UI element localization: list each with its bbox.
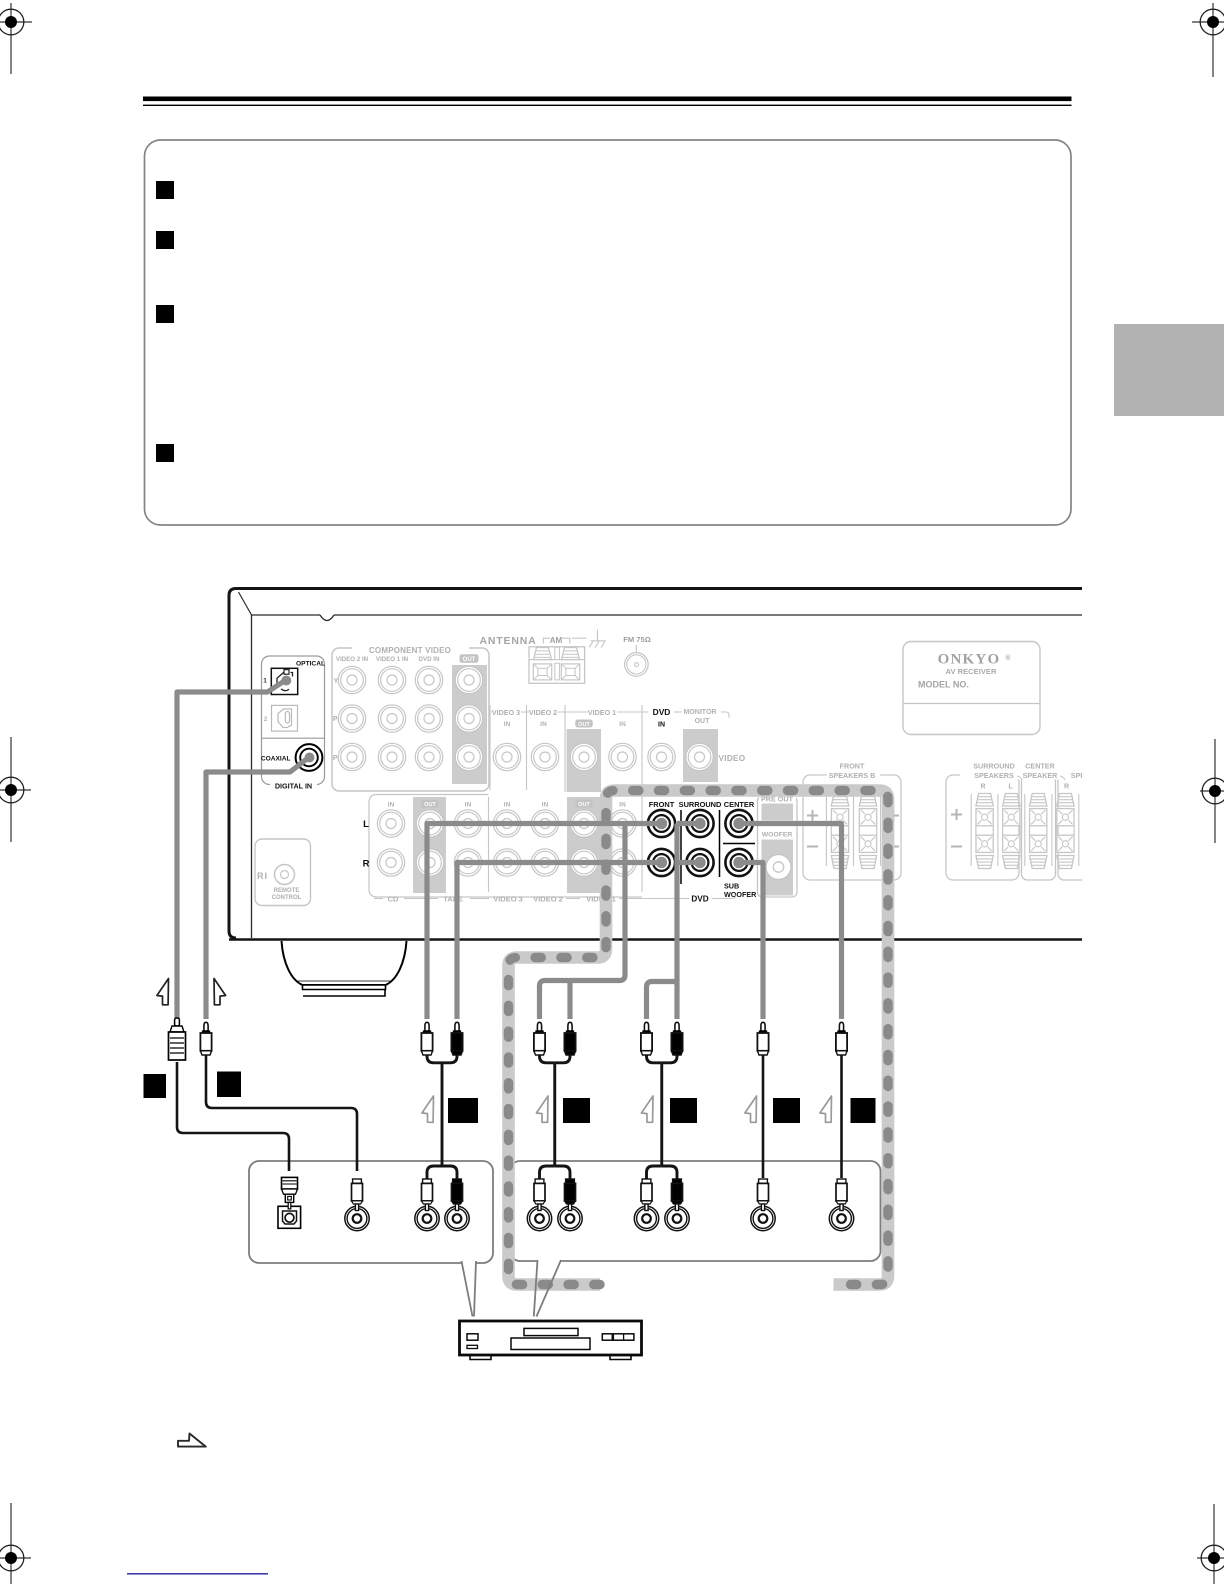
svg-text:REMOTE: REMOTE [274,888,300,894]
dvd outputs box 1 [249,1161,493,1263]
bubble tail 2 [534,1260,561,1317]
svg-text:SURROUND: SURROUND [679,800,722,809]
svg-text:SPEAKER: SPEAKER [1023,771,1059,780]
svg-text:OUT: OUT [578,722,590,728]
arrow center [820,1096,832,1122]
registration mark top-left [0,3,32,74]
arrow front 5.1 [536,1096,548,1122]
registration mark mid-right [1200,739,1224,843]
front R alt cable (5.1) [567,981,572,1020]
pre out woofer jack [766,854,791,879]
center plug upper [839,1022,843,1031]
gray bands tape out / video1 out (audio) [413,797,446,893]
svg-text:IN: IN [658,722,665,729]
svg-text:AM: AM [550,636,563,645]
section separator lines [489,705,643,892]
arrow surround [641,1096,653,1122]
svg-text:1: 1 [263,678,267,685]
note pointer icon [178,1434,206,1447]
svg-text:VIDEO 3: VIDEO 3 [493,895,523,904]
dvd front out R plug [566,1179,575,1183]
surround L plug upper [644,1022,648,1031]
optical plug upper [169,1018,186,1060]
registration mark bottom-right [1197,1504,1224,1584]
surround cable pair [647,824,696,1020]
page edge tab [1114,324,1224,416]
svg-text:MODEL NO.: MODEL NO. [918,680,969,690]
svg-text:DVD: DVD [691,895,708,904]
dashed cable run (dashes) [509,791,889,1285]
header double rule [143,97,1072,107]
dvd jack surround top [686,810,713,837]
svg-text:FRONT: FRONT [840,762,865,771]
label DIGITAL IN [270,780,317,789]
svg-text:VIDEO 2: VIDEO 2 [533,895,563,904]
tag surround [670,1098,697,1123]
component video jack c2r3 [378,743,405,770]
svg-text:FRONT: FRONT [649,800,675,809]
front L plug upper [425,1022,429,1031]
subwoofer plug upper [761,1022,765,1031]
optical jack 1 [271,668,297,694]
note bullet 1 [156,181,174,199]
audio jack cd L [377,810,404,837]
front R cable [457,863,657,1020]
front L cable [427,824,657,1020]
svg-text:RI: RI [257,871,268,881]
dvd surround out R plug [673,1179,682,1183]
tag front [448,1098,478,1123]
arrow coaxial [214,979,226,1005]
dashed cable run (tube) [509,791,889,1285]
dvd analog out L plug [423,1179,432,1183]
svg-text:CONTROL: CONTROL [272,895,302,901]
registration mark bottom-left [0,1503,31,1584]
svg-text:IN: IN [504,802,511,809]
svg-text:TAPE: TAPE [443,895,462,904]
dvd analog out R jack [445,1206,469,1230]
dvd optical out plug [282,1177,298,1209]
svg-text:CENTER: CENTER [724,800,755,809]
onkyo logo box [903,642,1040,735]
audio jack cd R [377,849,404,876]
dvd center out jack [829,1206,853,1230]
audio jack video1 out L [570,810,597,837]
dvd jack surround bottom [686,849,713,876]
speaker B plus/minus [807,810,899,847]
audio jack video3 L [493,810,520,837]
component video jack c4r3 [455,743,482,770]
svg-text:COMPONENT VIDEO: COMPONENT VIDEO [369,646,451,655]
svg-text:IN: IN [388,802,395,809]
dvd front out L jack [527,1206,551,1230]
svg-text:SURROUND: SURROUND [973,762,1015,771]
tag front 5.1 [563,1098,590,1123]
center terminal [1030,794,1047,869]
speakers A terminal box (clipped) [1058,775,1098,880]
svg-text:VIDEO 1 IN: VIDEO 1 IN [376,656,409,663]
svg-text:OUT: OUT [463,657,476,663]
surround terminal R [976,794,993,869]
dvd analog out L jack [415,1206,439,1230]
note bullet 2 [156,231,174,249]
composite jack video 1 in [609,743,636,770]
bubble tail 1 [462,1261,477,1317]
audio section rounded frame [369,795,642,898]
coaxial plug upper [204,1022,208,1031]
svg-text:DVD: DVD [653,707,671,717]
note bullet 4 [156,444,174,462]
speaker B terminal R [831,794,848,869]
pre out box [758,796,798,897]
gray bands video out / monitor out [567,729,602,792]
subwoofer cable [739,863,763,1020]
audio jack video2 L [531,810,558,837]
front R plug upper [455,1022,459,1031]
svg-text:OUT: OUT [424,802,436,808]
svg-text:VIDEO 3: VIDEO 3 [492,708,520,717]
arrow optical [157,979,169,1005]
component video jack c2r2 [378,705,405,732]
svg-text:SPEAKERS B: SPEAKERS B [829,771,876,780]
component video jack c1r1 [338,666,365,693]
RI remote control box [255,839,311,906]
svg-text:VIDEO 2 IN: VIDEO 2 IN [336,656,369,663]
svg-text:IN: IN [619,721,626,728]
dvd surround out R jack [665,1206,689,1230]
tag optical [144,1074,167,1098]
ground symbol [589,630,605,648]
optical cable to receiver [177,681,285,1020]
svg-text:IN: IN [619,802,626,809]
component video jack c3r3 [415,743,442,770]
note box frame [145,140,1072,525]
dvd subwoofer out plug [759,1179,768,1183]
component video jack c3r2 [415,705,442,732]
svg-text:IN: IN [542,802,549,809]
svg-text:CD: CD [388,895,399,904]
composite jack video 1 out [570,743,597,770]
svg-text:WOOFER: WOOFER [724,890,757,899]
coaxial cable to receiver [206,758,308,1019]
svg-text:AV RECEIVER: AV RECEIVER [946,667,997,676]
front L alt cable (5.1) [540,824,626,1020]
FM antenna jack [635,645,637,652]
audio jack video1 in R [609,849,636,876]
component video jack c1r2 [338,705,365,732]
composite jack dvd in [648,743,675,770]
svg-text:DIGITAL IN: DIGITAL IN [275,782,312,791]
svg-text:L: L [363,819,369,830]
composite jack video 3 in [493,743,520,770]
surround pair patch cables [647,1052,678,1180]
audio jack tape in L [454,810,481,837]
component video jack c3r1 [415,666,442,693]
dvd surround out L jack [634,1206,658,1230]
surround terminal L [1003,794,1020,869]
dvd front out L plug [535,1179,544,1183]
optical jack 2 (unused) [272,705,298,731]
coaxial digital jack [296,744,323,771]
label PRE OUT [759,794,796,802]
component video jack c1r3 [338,743,365,770]
receiver foot [282,941,407,996]
svg-text:®: ® [1005,654,1011,662]
composite jack video 2 in [531,743,558,770]
optical patch cable [177,1062,289,1171]
center patch cable [840,1054,843,1178]
svg-text:VIDEO: VIDEO [719,754,746,763]
registration mark mid-left [0,737,31,842]
svg-text:OUT: OUT [695,718,711,725]
surround R plug upper [675,1022,679,1031]
front 5.1 R plug upper [568,1022,572,1031]
dvd jack front bottom [648,849,675,876]
digital in box [262,656,325,785]
svg-text:ANTENNA: ANTENNA [480,635,537,647]
dvd surround out L plug [642,1179,651,1183]
dvd outputs box 2 [510,1161,881,1261]
footer blue rule [127,1573,268,1575]
svg-text:IN: IN [465,802,472,809]
cable tips [281,676,744,869]
audio jack tape in R [454,849,481,876]
dvd coaxial out plug [353,1179,362,1183]
arrow front [422,1096,434,1122]
component video box [332,648,489,791]
tag coaxial [217,1072,241,1098]
subwoofer patch cable [762,1054,765,1178]
audio jack video3 R [493,849,520,876]
dvd jack center/sub bottom [725,849,752,876]
svg-text:DVD IN: DVD IN [419,656,441,663]
dvd subwoofer out jack [751,1206,775,1230]
svg-text:OUT: OUT [578,802,590,808]
svg-text:FM 75Ω: FM 75Ω [623,635,651,644]
svg-text:R: R [1064,784,1069,791]
svg-text:MONITOR: MONITOR [684,709,717,716]
svg-text:OPTICAL: OPTICAL [296,661,325,668]
tag subwoofer [773,1098,800,1123]
svg-text:SPEAKERS: SPEAKERS [974,771,1014,780]
dvd jack center/sub top [725,810,752,837]
audio jack video1 in L [609,810,636,837]
svg-text:VIDEO 2: VIDEO 2 [529,708,557,717]
svg-text:VIDEO 1: VIDEO 1 [588,708,616,717]
svg-text:CENTER: CENTER [1025,762,1055,771]
surround speakers terminal box [946,775,1019,880]
front speakers B terminal box [803,775,901,880]
dvd center out plug [837,1179,846,1183]
label COMPONENT VIDEO [352,644,469,653]
center cable [739,824,842,1020]
dvd block separators [681,810,755,884]
dvd front out R jack [558,1206,582,1230]
component video jack c2r1 [378,666,405,693]
dvd analog out R plug [453,1179,462,1183]
speakers A terminal R [1057,794,1074,869]
svg-text:L: L [1008,784,1013,791]
note bullet 3 [156,305,174,323]
dvd optical out jack [278,1206,301,1228]
front 5.1 L plug upper [537,1022,541,1031]
RI jack [275,865,295,885]
audio jack tape out R [416,849,443,876]
dvd jack front top [648,810,675,837]
audio jack video1 out R [570,849,597,876]
component video jack c4r2 [455,705,482,732]
front pair patch cables [427,1052,457,1180]
audio jack tape out L [416,810,443,837]
svg-text:COAXIAL: COAXIAL [261,756,291,763]
registration mark top-right [1192,3,1224,77]
arrow subwoofer [745,1096,757,1122]
center speaker terminal box [1022,775,1056,880]
svg-text:ONKYO: ONKYO [938,652,1001,668]
AM antenna terminal block [529,647,585,684]
composite jack monitor out [686,743,713,770]
coaxial patch cable [206,1054,357,1171]
audio jack video2 R [531,849,558,876]
surround plus/minus [951,809,962,847]
svg-text:IN: IN [504,721,511,728]
dvd coaxial out jack [345,1206,369,1230]
dvd player [460,1321,642,1360]
component video jack c4r1 [455,666,482,693]
tag center [851,1098,876,1123]
svg-text:WOOFER: WOOFER [762,832,793,839]
speaker B terminal L [859,794,876,869]
receiver rear panel outline [229,589,1082,940]
front 5.1 pair patch cables [540,1052,571,1180]
svg-text:R: R [363,859,370,870]
svg-text:IN: IN [540,721,547,728]
svg-text:R: R [980,784,985,791]
